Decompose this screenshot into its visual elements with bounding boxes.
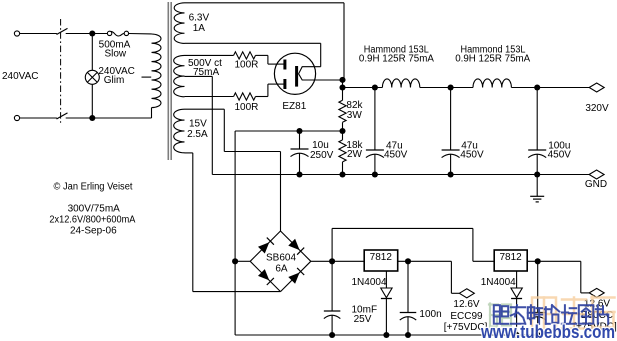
junction cap C4 node [534,84,540,90]
svg-text:1N4004: 1N4004 [352,277,387,288]
junction 10u cap node [296,128,302,134]
junction 0V C7 [535,332,541,338]
wire D6 to 0V rail [516,298,518,335]
wire D5 to 0V rail [385,298,387,335]
fuse F1 500mA [107,31,111,35]
wire bridge plus to U1 input [311,260,364,262]
capacitor C6 100n [407,261,409,312]
wire 15V bottom lead to bridge AC1 [185,152,193,154]
svg-text:© Jan Erling Veiset: © Jan Erling Veiset [54,182,133,193]
transformer T1 primary winding [152,34,162,108]
wire lamp top [91,36,93,70]
svg-text:2x12.6V/800+600mA: 2x12.6V/800+600mA [49,215,135,226]
wire bridge minus to node [235,260,250,262]
tube cathode bar [295,66,298,87]
svg-text:ECC99: ECC99 [450,311,483,322]
bridge diode D1 (minus to AC top) [258,242,269,253]
wire R2 to anode 2 [256,96,268,98]
junction B+ node [339,84,345,90]
junction gnd 18k [339,171,345,177]
capacitor C4 100u 450V [536,88,538,151]
capacitor C1 10u 250V [299,131,301,149]
junction live/lamp node [89,30,95,36]
svg-text:1N4004: 1N4004 [481,277,516,288]
svg-text:300V/75mA: 300V/75mA [68,204,121,215]
junction cap C3 node [448,84,454,90]
junction 0V D6 [514,332,520,338]
svg-text:25V: 25V [354,314,372,325]
svg-text:SB604: SB604 [266,252,296,263]
junction neutral/lamp node [89,115,95,121]
junction gnd 10u [296,171,302,177]
wire B+ to choke L1 [343,87,383,89]
wire choke L1 to choke L2 [420,87,473,89]
svg-text:Glim: Glim [104,75,125,86]
wire lamp bottom [91,84,93,118]
transformer core [167,2,169,160]
bridge diode D4 (AC bottom to plus) [288,273,299,284]
wire 6.3V bottom lead to heater [185,42,321,44]
svg-text:12.6V: 12.6V [453,299,479,310]
secondary winding 6.3V 1A [174,3,184,44]
junction 0V D5 [383,332,389,338]
svg-text:100R: 100R [235,60,259,71]
wire heater-elevation drop [234,131,236,261]
junction gnd C2 [372,171,378,177]
choke L2 Hammond 153L [473,79,511,88]
switch S1 pole A blade [57,28,68,34]
junction gnd C4 [534,171,540,177]
tube heater/cathode chevron [299,67,343,80]
tube anode plate 1 [283,60,286,70]
svg-text:7812: 7812 [499,252,522,263]
wire U1 output [398,260,452,262]
wire to U2 feed [331,228,333,261]
svg-text:450V: 450V [384,150,408,161]
svg-text:GND: GND [585,179,607,190]
ground rail GND [212,174,589,176]
regulator U2 7812 [494,250,527,271]
choke L1 Hammond 153L [382,79,419,88]
svg-text:240VAC: 240VAC [2,71,39,82]
wire choke L2 to 320V terminal [511,87,589,89]
capacitor C7 100n [537,261,539,312]
svg-text:EZ81: EZ81 [282,101,306,112]
junction U2 output node [535,258,541,264]
switch S1 mechanical linkage [60,19,62,125]
lamp LP1 240VAC glim [85,70,99,84]
svg-text:7812: 7812 [370,252,393,263]
svg-text:www.tubebbs.com: www.tubebbs.com [480,322,615,341]
mains terminal N (240VAC neutral) [14,115,19,120]
svg-text:2.5A: 2.5A [187,129,208,140]
wire U2 output to terminal [580,261,582,293]
svg-text:3W: 3W [347,110,363,121]
diode D6 1N4004 [511,288,522,298]
svg-text:100R: 100R [235,102,259,113]
svg-text:0.9H 125R 75mA: 0.9H 125R 75mA [455,53,530,64]
secondary winding 15V 2.5A [174,109,185,153]
wire live from terminal to switch [20,33,57,35]
wire 500V top lead [185,54,234,56]
capacitor C2 47u 450V [374,88,376,151]
diode D5 1N4004 [381,288,392,298]
wire U1 output to terminal [450,261,452,293]
mains terminal L (240VAC live) [14,31,19,36]
terminal 12.6V ECC99 +75VDC [459,289,474,298]
resistor R4 18k 2W [342,131,344,140]
capacitor C3 47u 450V [450,88,452,151]
svg-text:100n: 100n [419,309,441,320]
wire cathode node to B+ node [342,80,344,88]
switch S1 pole B blade [57,113,68,119]
wire U2 output [527,260,581,262]
wire neutral switch to transformer [66,117,152,119]
svg-text:15V: 15V [189,119,207,130]
bridge rectifier BR1 SB604 outline [250,231,280,261]
resistor R1 100R (upper) [234,52,256,59]
wire fuse to primary [129,33,152,35]
junction divider tap node [339,128,345,134]
watermark tubebbs.com [489,304,498,327]
wire divider tap to heater-elevation [235,130,342,132]
junction 0V 10mF [329,332,335,338]
svg-text:24-Sep-06: 24-Sep-06 [70,226,117,237]
transformer primary tap stub [142,76,152,78]
secondary winding 500V ct 75mA [174,55,185,96]
junction 0V 100n [405,332,411,338]
svg-text:250V: 250V [310,150,334,161]
svg-text:Slow: Slow [104,48,126,59]
regulator U1 7812 [364,250,398,271]
wire minus node to 0V rail [234,261,236,335]
resistor R3 82k 3W [342,88,344,101]
svg-text:450V: 450V [548,150,572,161]
svg-text:6A: 6A [275,264,288,275]
wire U1 gnd pin [385,271,387,288]
bridge diode D2 (AC top to plus) [288,239,299,250]
wire 6.3V top lead to cathode node [185,2,345,4]
wire U2 gnd pin [516,271,518,288]
resistor R2 100R (lower) [234,93,256,100]
junction U1 input node [329,258,335,264]
junction cathode/heater node [339,77,345,83]
junction U1 output node [405,258,411,264]
junction cap C2 node [372,84,378,90]
tube anode plate 2 [283,79,286,89]
junction gnd C3 [448,171,454,177]
wire live switch to fuse [66,33,108,35]
bridge diode D3 (minus to AC bottom) [258,269,269,280]
ground symbol [536,175,538,197]
terminal GND [589,170,604,179]
svg-text:2W: 2W [347,149,363,160]
svg-text:1A: 1A [193,23,206,34]
wire R1 to anode 1 [256,54,268,56]
wire 15V top lead to bridge AC2 [185,108,225,110]
svg-text:320V: 320V [585,103,609,114]
tube V1 EZ81 envelope [274,53,315,94]
capacitor C5 10mF 25V [331,261,333,311]
terminal 12.6V E80CC +75VDC [589,288,604,297]
junction bridge minus node [232,258,238,264]
wire 500V centre tap to ground rail [185,75,213,77]
wire neutral from terminal to switch [20,117,57,119]
svg-text:0.9H 125R 75mA: 0.9H 125R 75mA [359,53,434,64]
wire 500V bottom lead [185,96,234,98]
terminal 320V [589,83,604,92]
svg-text:450V: 450V [460,150,484,161]
